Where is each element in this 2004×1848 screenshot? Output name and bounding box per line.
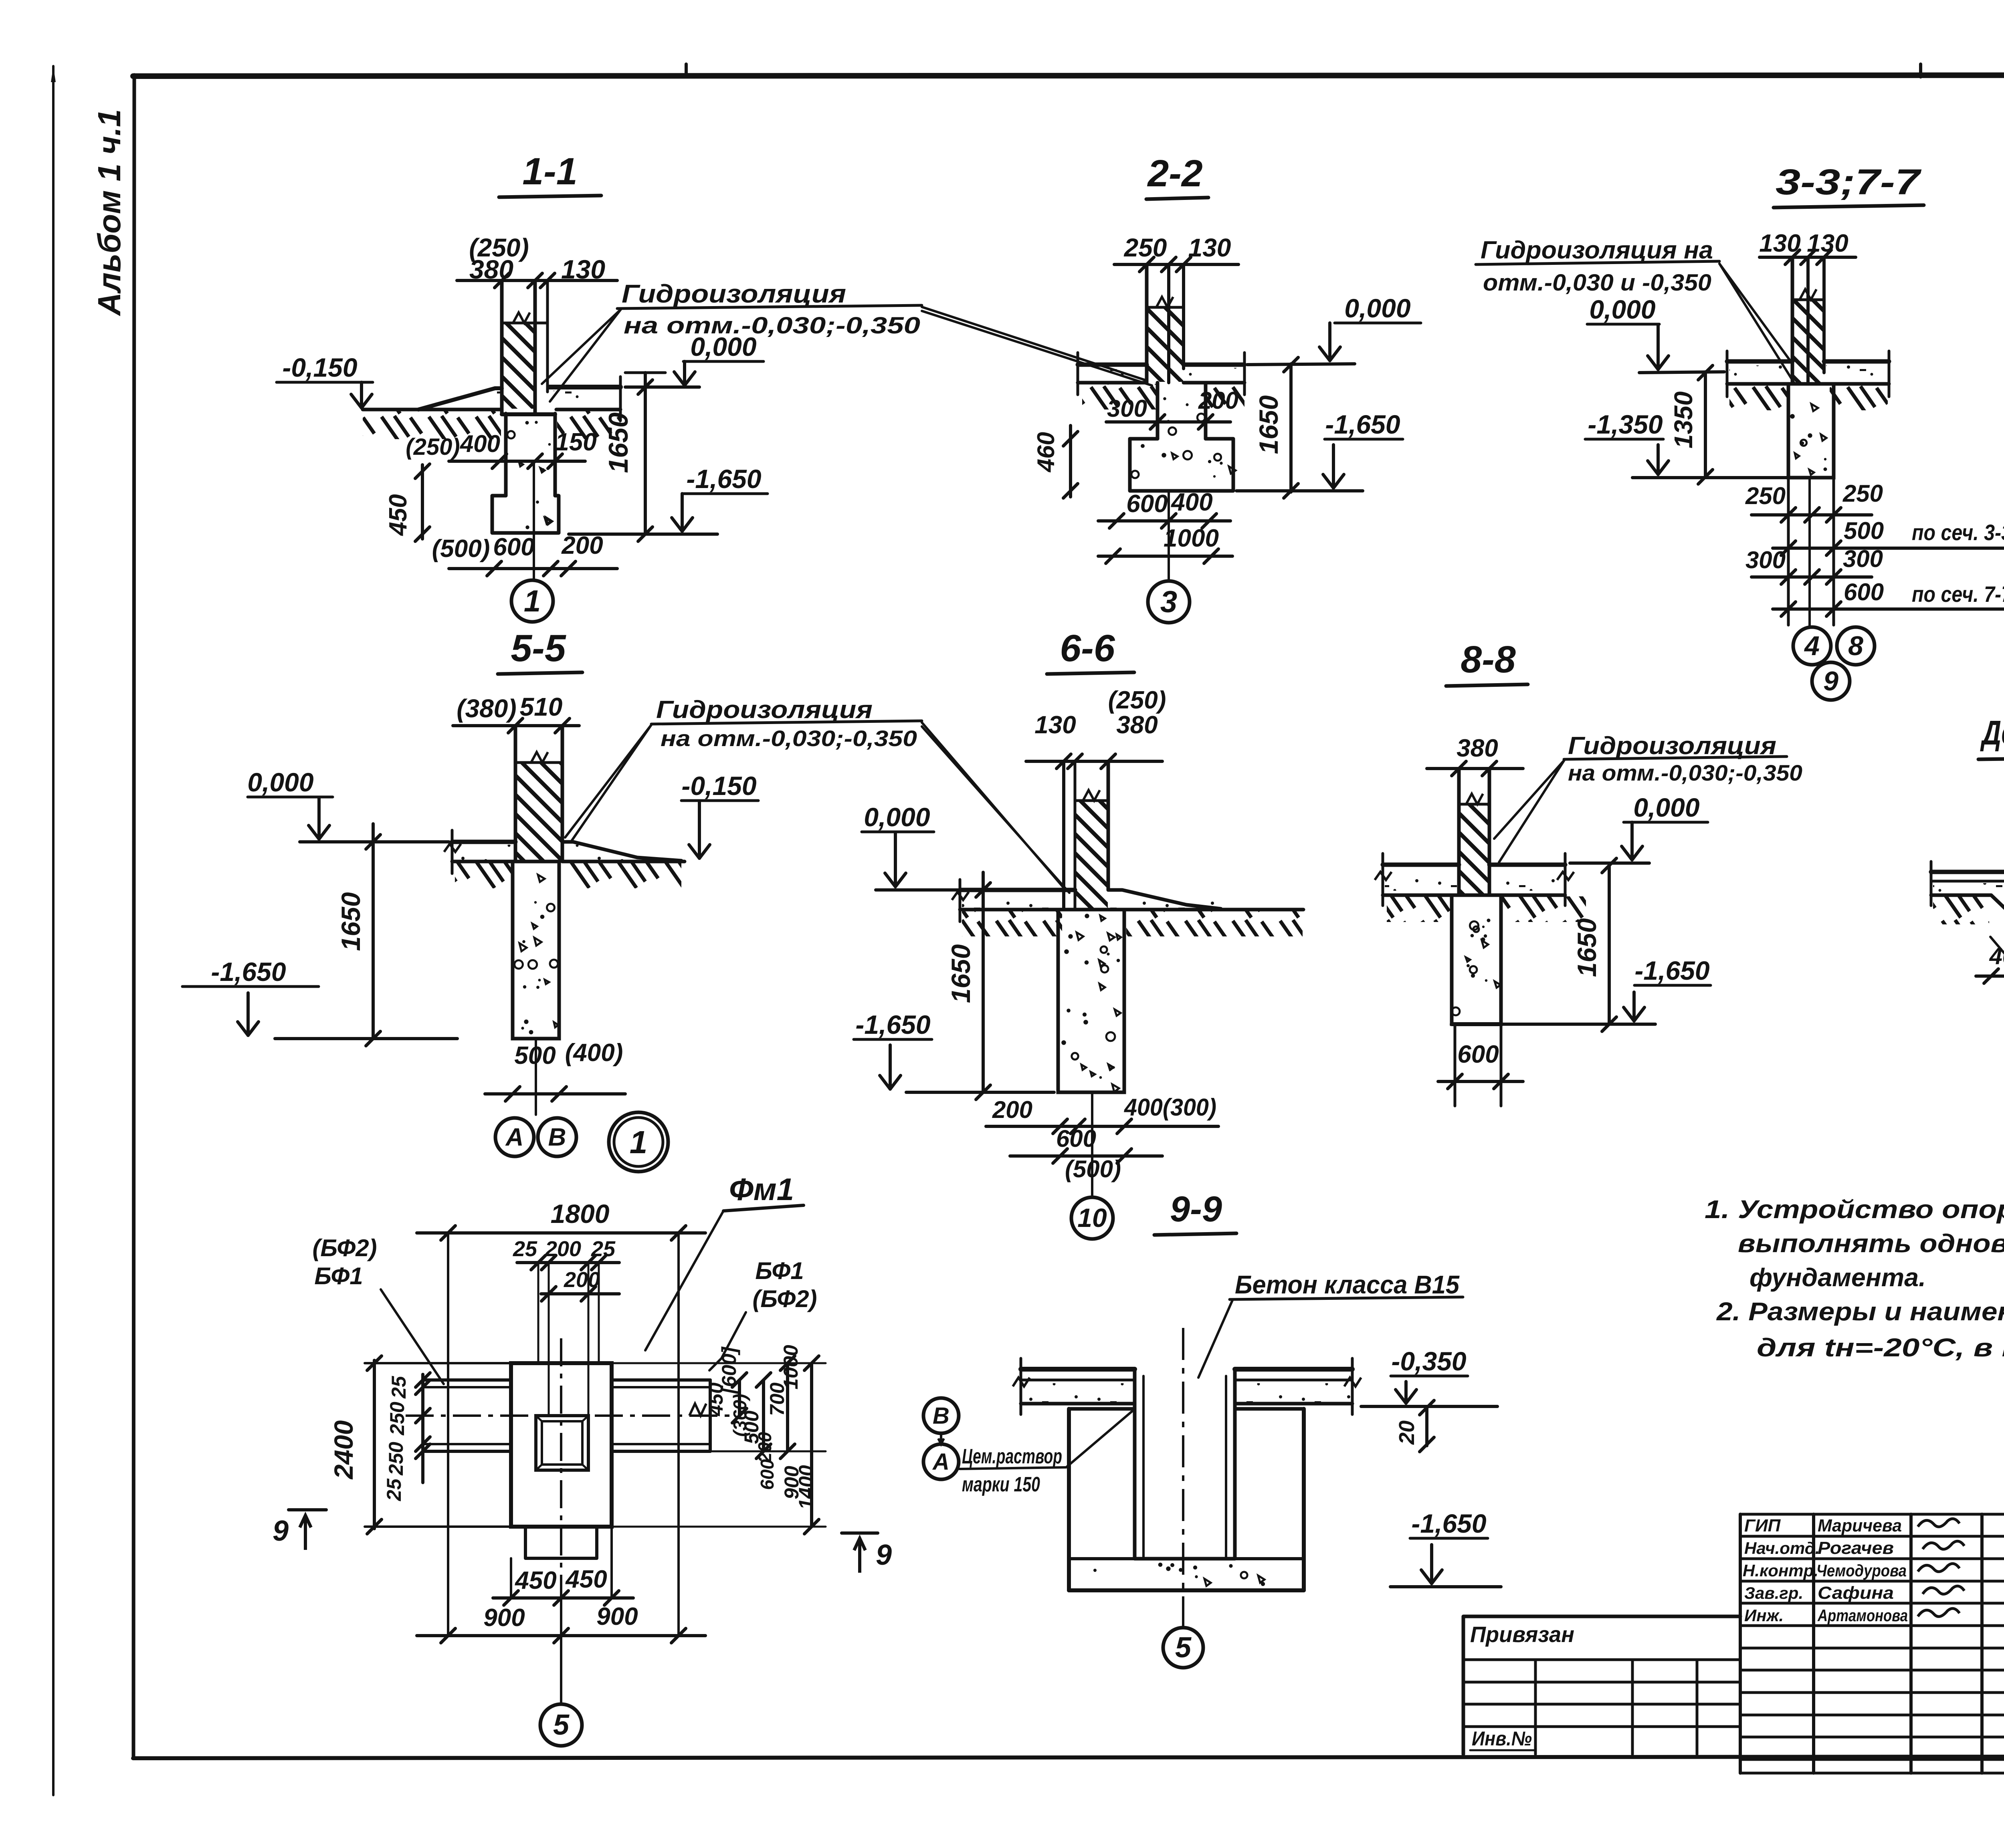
section 1-1 floor slab — [418, 388, 502, 410]
svg-text:1650: 1650 — [1254, 395, 1283, 454]
section 3-3 hydro leader — [1719, 264, 1790, 360]
svg-text:Зав.гр.: Зав.гр. — [1744, 1584, 1803, 1602]
svg-text:0,000: 0,000 — [1589, 295, 1655, 324]
detail A floor slab — [1931, 870, 2004, 874]
svg-text:(380): (380) — [457, 694, 516, 723]
section 1-1 centerline — [533, 461, 535, 580]
section 5-5 axis circles A B — [495, 1118, 534, 1156]
svg-text:А: А — [505, 1124, 524, 1151]
svg-text:(250): (250) — [406, 434, 460, 460]
svg-text:0,000: 0,000 — [690, 332, 756, 361]
svg-text:2-2: 2-2 — [1147, 152, 1202, 195]
svg-text:1650: 1650 — [946, 944, 976, 1003]
detail A concrete pocket — [1991, 895, 2004, 922]
section 2-2 ground hatch — [1082, 384, 1156, 410]
plan left foundation beam — [423, 1378, 511, 1382]
section 1-1 axis circle 1 — [511, 580, 553, 622]
svg-text:300: 300 — [1107, 395, 1147, 422]
section 3-3 ground hatch — [1729, 385, 1788, 410]
svg-text:600: 600 — [757, 1459, 778, 1490]
section 3-3 axis circles 4 8 9 — [1793, 627, 1831, 665]
svg-text:-1,350: -1,350 — [1588, 410, 1663, 439]
section 8-8 floor slab — [1383, 863, 1459, 867]
svg-text:400: 400 — [1170, 488, 1212, 516]
section 5-5 ground hatch — [455, 863, 514, 888]
svg-text:20: 20 — [1395, 1420, 1419, 1445]
svg-text:5-5: 5-5 — [511, 627, 566, 670]
svg-text:9: 9 — [876, 1539, 892, 1571]
svg-text:Н.контр.: Н.контр. — [1743, 1561, 1818, 1580]
svg-text:(400): (400) — [565, 1039, 623, 1067]
svg-text:В: В — [933, 1403, 949, 1429]
svg-text:0,000: 0,000 — [1633, 793, 1699, 822]
section 6-6 ground hatch — [962, 911, 1062, 936]
svg-text:БФ1: БФ1 — [755, 1257, 804, 1284]
svg-text:Маричева: Маричева — [1818, 1516, 1902, 1535]
svg-text:0,000: 0,000 — [1344, 293, 1410, 323]
svg-text:200: 200 — [992, 1096, 1032, 1123]
svg-text:1: 1 — [524, 584, 541, 618]
plan centerlines dash-dot — [560, 1338, 562, 1579]
svg-text:Альбом 1 ч.1: Альбом 1 ч.1 — [91, 109, 127, 317]
svg-text:250: 250 — [1842, 480, 1883, 507]
section 6-6 centerline — [1091, 1092, 1093, 1196]
svg-text:для tн=-20°С, в квадратных: для tн=-20°С, в квадратных для tн=-40°С. — [1757, 1333, 2004, 1362]
svg-text:Цем.раствор: Цем.раствор — [962, 1445, 1062, 1468]
svg-text:1350: 1350 — [1669, 391, 1698, 448]
section 2-2 wall — [1145, 264, 1149, 383]
section 8-8 ground hatch — [1387, 896, 1452, 922]
svg-text:Гидроизоляция: Гидроизоляция — [622, 279, 846, 308]
svg-text:150: 150 — [555, 428, 596, 456]
drawing frame — [133, 75, 2004, 76]
section 5-5 wall — [514, 726, 517, 861]
section 5-5 hydro leader — [565, 725, 651, 837]
svg-text:Рогачев: Рогачев — [1818, 1538, 1894, 1558]
svg-text:А: А — [932, 1449, 949, 1475]
svg-text:Гидроизоляция: Гидроизоляция — [1568, 732, 1776, 760]
svg-text:10: 10 — [1077, 1203, 1107, 1233]
svg-text:500: 500 — [1844, 517, 1884, 544]
section 6-6 footing — [1058, 910, 1124, 1092]
node detail circle 1 — [609, 1112, 668, 1172]
svg-text:-1,650: -1,650 — [1411, 1509, 1486, 1538]
svg-text:на отм.-0,030;-0,350: на отм.-0,030;-0,350 — [661, 726, 917, 751]
svg-text:фундамента.: фундамента. — [1749, 1263, 1926, 1292]
svg-text:марки 150: марки 150 — [962, 1473, 1040, 1496]
svg-text:Привязан: Привязан — [1470, 1622, 1574, 1647]
svg-text:450: 450 — [384, 494, 412, 536]
svg-text:Нач.отд.: Нач.отд. — [1744, 1539, 1820, 1557]
svg-text:200: 200 — [545, 1237, 581, 1261]
plan extension verticals — [447, 1233, 449, 1636]
svg-text:Фм1: Фм1 — [729, 1172, 794, 1207]
svg-text:8-8: 8-8 — [1461, 638, 1515, 681]
svg-text:-1,650: -1,650 — [211, 957, 286, 987]
svg-text:450: 450 — [565, 1566, 607, 1593]
section 1-1 wall — [500, 280, 504, 414]
hydro leader to section 6-6 — [922, 722, 1065, 889]
svg-text:300: 300 — [1843, 545, 1883, 572]
svg-text:380: 380 — [1457, 734, 1498, 762]
section 8-8 hydro leader — [1494, 760, 1564, 839]
section 5-5 floor slab — [452, 840, 515, 844]
svg-text:5: 5 — [553, 1709, 570, 1741]
svg-text:6-6: 6-6 — [1060, 627, 1115, 670]
page edge line left — [52, 66, 55, 1795]
section 3-3 wall — [1791, 257, 1794, 384]
svg-text:Гидроизоляция на: Гидроизоляция на — [1481, 236, 1713, 264]
svg-text:250: 250 — [1124, 233, 1167, 262]
svg-text:(250): (250) — [1108, 686, 1166, 714]
svg-text:600: 600 — [1457, 1041, 1499, 1068]
svg-text:1800: 1800 — [551, 1199, 610, 1229]
svg-text:В: В — [548, 1124, 566, 1151]
svg-text:3: 3 — [1160, 585, 1177, 619]
svg-text:9: 9 — [273, 1515, 289, 1547]
section 6-6 floor slab — [960, 888, 1075, 892]
svg-text:-1,650: -1,650 — [686, 464, 761, 494]
svg-text:Инв.№: Инв.№ — [1472, 1727, 1532, 1750]
svg-text:5: 5 — [1175, 1632, 1192, 1664]
section 9-9 axis circle 5 — [1163, 1628, 1203, 1668]
svg-text:Инж.: Инж. — [1744, 1606, 1784, 1625]
svg-text:400: 400 — [460, 430, 500, 457]
svg-text:400(300): 400(300) — [1124, 1094, 1216, 1121]
svg-text:200: 200 — [1198, 387, 1238, 414]
svg-text:2400: 2400 — [329, 1420, 358, 1480]
svg-text:(500): (500) — [432, 535, 490, 563]
plan right foundation beam — [612, 1378, 710, 1382]
svg-text:Деталь А: Деталь А — [1980, 714, 2004, 752]
svg-text:900: 900 — [596, 1603, 638, 1630]
svg-text:200: 200 — [561, 532, 603, 559]
svg-text:400: 400 — [1989, 943, 2004, 969]
svg-text:1650: 1650 — [1572, 918, 1602, 977]
svg-text:(БФ2): (БФ2) — [312, 1235, 377, 1261]
svg-text:Чемодурова: Чемодурова — [1816, 1561, 1907, 1580]
svg-text:3-3;7-7: 3-3;7-7 — [1776, 162, 1922, 202]
plan inner pocket squares — [536, 1416, 588, 1470]
binding table — [1463, 1616, 1740, 1754]
svg-text:по сеч. 7-7: по сеч. 7-7 — [1912, 581, 2004, 607]
svg-text:БФ1: БФ1 — [314, 1263, 363, 1289]
staff table grid — [1740, 1513, 2004, 1516]
section 9-9 pocket walls — [1133, 1369, 1137, 1559]
svg-text:25: 25 — [383, 1478, 405, 1501]
svg-text:(БФ2): (БФ2) — [752, 1285, 817, 1312]
svg-text:4: 4 — [1804, 631, 1820, 661]
svg-text:1. Устройство опор под фунд: 1. Устройство опор под фундаментные балк… — [1705, 1195, 2004, 1224]
section 1-1 ground hatch — [363, 411, 501, 439]
svg-text:на отм.-0,030;-0,350: на отм.-0,030;-0,350 — [624, 313, 920, 339]
section 9-9 floor slab — [1021, 1367, 1135, 1372]
svg-text:25: 25 — [388, 1376, 410, 1399]
plan axis circle 5 — [560, 1579, 562, 1703]
section 2-2 axis circle 3 — [1148, 581, 1190, 623]
svg-text:1000: 1000 — [1164, 525, 1219, 552]
hydro leader to section 2-2 — [922, 307, 1147, 381]
section 9-9 bottom bed — [1067, 1559, 1071, 1590]
svg-text:250: 250 — [385, 1442, 407, 1476]
svg-text:2. Размеры и наименования в: 2. Размеры и наименования в круглых скоб… — [1716, 1297, 2004, 1326]
section 6-6 wall — [1062, 761, 1065, 910]
svg-text:9: 9 — [1823, 666, 1838, 696]
section 1-1 footing — [504, 414, 508, 496]
plan central monolith outline — [511, 1363, 612, 1527]
svg-text:1400: 1400 — [795, 1465, 817, 1509]
svg-text:1: 1 — [630, 1124, 648, 1160]
svg-text:250: 250 — [1745, 482, 1786, 509]
section 2-2 floor slab — [1078, 363, 1147, 367]
svg-text:250: 250 — [386, 1402, 408, 1436]
svg-text:600: 600 — [1844, 579, 1884, 605]
svg-text:-1,650: -1,650 — [1325, 410, 1400, 439]
svg-text:1650: 1650 — [603, 412, 634, 473]
svg-text:1-1: 1-1 — [522, 150, 577, 193]
detail A ground hatch — [1933, 896, 1989, 924]
svg-text:600: 600 — [493, 533, 534, 561]
svg-text:Артамонова: Артамонова — [1817, 1606, 1908, 1625]
svg-text:-0,150: -0,150 — [282, 353, 357, 382]
svg-text:Сафина: Сафина — [1818, 1583, 1894, 1603]
svg-text:ГИП: ГИП — [1744, 1516, 1781, 1535]
svg-text:0,000: 0,000 — [247, 767, 313, 797]
svg-text:450: 450 — [514, 1567, 556, 1594]
svg-text:600: 600 — [1056, 1125, 1096, 1152]
section 5-5 footing — [513, 861, 559, 1039]
section 3-3 floor slab — [1727, 359, 1792, 364]
svg-text:-0,150: -0,150 — [681, 771, 756, 801]
svg-text:8: 8 — [1848, 631, 1863, 661]
svg-text:-1,650: -1,650 — [1634, 956, 1709, 985]
svg-text:по сеч. 3-3: по сеч. 3-3 — [1912, 520, 2004, 545]
staff table signatures — [1918, 1519, 1960, 1527]
svg-text:Бетон класса В15: Бетон класса В15 — [1235, 1270, 1460, 1299]
plan axis circles B A — [923, 1398, 959, 1433]
section 8-8 footing — [1452, 895, 1501, 1024]
section 1-1 hydro leader left — [542, 309, 621, 384]
svg-text:380: 380 — [1116, 711, 1158, 739]
svg-text:25: 25 — [513, 1237, 537, 1261]
section 9-9 centerline — [1182, 1328, 1184, 1626]
svg-text:1650: 1650 — [336, 892, 366, 951]
svg-text:9-9: 9-9 — [1170, 1189, 1222, 1229]
svg-text:-1,650: -1,650 — [855, 1010, 930, 1039]
section 3-3 lower extension lines — [1787, 478, 1790, 625]
section 5-5 centerline — [535, 1039, 537, 1115]
svg-text:900: 900 — [483, 1604, 525, 1632]
svg-text:450: 450 — [705, 1382, 727, 1416]
svg-text:460: 460 — [1032, 432, 1059, 472]
svg-text:Гидроизоляция: Гидроизоляция — [656, 696, 873, 724]
plan lower step — [525, 1527, 597, 1558]
section 9-9 pier outline — [1069, 1407, 1135, 1411]
section 2-2 centerline — [1168, 491, 1170, 580]
svg-text:отм.-0,030 и -0,350: отм.-0,030 и -0,350 — [1483, 270, 1711, 296]
svg-text:0,000: 0,000 — [864, 802, 930, 832]
svg-text:130: 130 — [1034, 711, 1076, 739]
svg-text:130: 130 — [1188, 233, 1231, 262]
section 6-6 axis circle 10 — [1071, 1197, 1113, 1239]
section 2-2 footing — [1156, 383, 1160, 439]
svg-text:на отм.-0,030;-0,350: на отм.-0,030;-0,350 — [1568, 760, 1802, 785]
section 3-3 footing — [1788, 384, 1834, 478]
section 8-8 wall — [1457, 769, 1461, 895]
svg-text:-0,350: -0,350 — [1391, 1346, 1466, 1376]
svg-text:выполнять одновременно с бе: выполнять одновременно с бетонированием — [1738, 1229, 2004, 1258]
svg-text:300: 300 — [1745, 547, 1786, 573]
svg-text:510: 510 — [520, 692, 563, 721]
svg-text:600: 600 — [1126, 490, 1168, 518]
